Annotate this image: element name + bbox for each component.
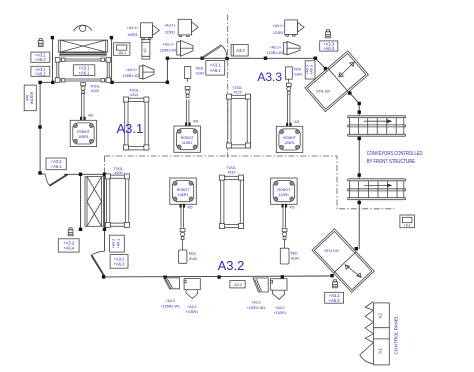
svg-text:-A3.2: -A3.2	[233, 283, 242, 287]
rotated label box +A3.2+A6.1b	[110, 235, 125, 252]
svg-text:PED: PED	[291, 251, 299, 255]
svg-text:#100: #100	[115, 171, 123, 175]
svg-text:+A3.1+: +A3.1+	[164, 24, 176, 28]
svg-text:105R1: 105R1	[127, 33, 138, 37]
node K	[324, 67, 327, 70]
wire diamond1 to conveyor1	[350, 93, 360, 116]
svg-text:4/5: 4/5	[88, 114, 93, 118]
svg-text:123R1: 123R1	[273, 31, 284, 35]
fixture frame TOOL #100	[105, 174, 129, 228]
svg-text:105R1: 105R1	[78, 135, 89, 139]
node A	[51, 36, 54, 39]
ped gun of 115R1	[184, 67, 190, 98]
tip dress cassette	[142, 40, 150, 59]
svg-text:ROBOT: ROBOT	[283, 136, 297, 140]
svg-text:GUN: GUN	[189, 257, 197, 261]
label box +A3.2+A6.4	[58, 239, 79, 252]
weld gun station 123R1	[285, 20, 305, 36]
svg-text:+A3.2: +A3.2	[166, 299, 176, 303]
bottom station gun 110R1	[271, 279, 287, 300]
gun label 105R1-W1	[123, 68, 140, 78]
robot 105R1	[70, 83, 97, 147]
node J	[314, 57, 317, 60]
wire conveyor1 to conveyor2	[358, 136, 360, 179]
ped gun of 125R1	[285, 67, 292, 94]
svg-text:4/5: 4/5	[290, 206, 295, 210]
svg-text:+110R1-W1: +110R1-W1	[246, 306, 265, 310]
svg-text:+A6.4: +A6.4	[63, 246, 75, 251]
svg-text:-A6.1: -A6.1	[118, 51, 127, 55]
svg-text:+A6.1: +A6.1	[79, 70, 91, 75]
svg-text:ROBOT: ROBOT	[177, 188, 191, 192]
node V	[103, 173, 106, 176]
svg-text:#113: #113	[130, 93, 138, 97]
robot 125R1	[276, 95, 303, 153]
eye sensor symbol	[74, 25, 92, 31]
fixture table F1 under M1	[55, 58, 110, 83]
wire left post of lift table	[52, 38, 54, 83]
wire door2 arc	[91, 251, 104, 255]
svg-text:#110: #110	[228, 170, 236, 174]
node Y	[103, 228, 106, 231]
wire right post of lift table	[111, 38, 113, 83]
node F	[166, 57, 169, 60]
wire door1 arc	[46, 175, 50, 187]
svg-text:STN 100: STN 100	[324, 249, 338, 253]
tool label #110	[227, 166, 237, 174]
svg-text:+A6.4: +A6.4	[35, 57, 47, 62]
node Z2	[38, 171, 41, 174]
dashed region boundary	[105, 156, 395, 209]
dashed boundary left stub	[104, 156, 106, 174]
svg-text:+A6.1: +A6.1	[210, 68, 222, 73]
node S	[217, 275, 220, 278]
node N	[358, 137, 361, 140]
svg-text:AIR: AIR	[25, 95, 29, 101]
rotated label box +A3.3	[305, 61, 315, 79]
svg-text:+A3.1+: +A3.1+	[270, 46, 282, 50]
gun label 115R1-W1	[160, 43, 177, 53]
node B	[110, 36, 113, 39]
label box A3.3 small	[231, 45, 248, 56]
svg-text:+A3.1+: +A3.1+	[273, 24, 285, 28]
wire conveyor2 to diamond2	[358, 200, 360, 249]
ladder conveyor upper	[348, 116, 406, 136]
svg-text:105R1-W1: 105R1-W1	[123, 74, 140, 78]
ladder conveyor lower	[348, 179, 406, 200]
node Z	[38, 125, 41, 128]
weld gun station 115R1	[178, 19, 198, 36]
svg-text:4/5: 4/5	[193, 120, 198, 124]
ped gun label top2	[294, 68, 302, 77]
ped gun of 100R1	[178, 240, 187, 263]
gun label 123R1-W1	[267, 46, 284, 56]
monitor box +6.1 right	[400, 215, 415, 228]
conveyors note text	[367, 151, 423, 165]
bottom station horn 110R1-W1	[253, 278, 268, 292]
svg-text:CONTROL PANEL: CONTROL PANEL	[394, 315, 399, 354]
label box +A3.2+A6.3	[325, 292, 344, 303]
SECTION: machines	[55, 19, 414, 365]
svg-text:100R1: 100R1	[178, 193, 189, 197]
svg-text:A3.1: A3.1	[117, 121, 144, 136]
node U	[102, 275, 105, 278]
svg-text:+110R1: +110R1	[274, 311, 286, 315]
svg-text:4/5: 4/5	[188, 206, 193, 210]
node L	[348, 91, 351, 94]
svg-text:A3.3: A3.3	[257, 70, 282, 84]
svg-text:+A3.1+: +A3.1+	[126, 68, 138, 72]
tool label #100	[114, 167, 124, 175]
station label 110R1 bottom	[274, 306, 286, 315]
node Q	[330, 274, 333, 277]
diamond conveyor STN100 lower	[312, 229, 374, 292]
gun label 115R1	[164, 24, 176, 35]
ped gun label bottom2	[291, 251, 299, 260]
wire horizontal y80	[112, 58, 168, 82]
label box +A3.2+A6.1	[46, 158, 66, 170]
air water box	[24, 85, 36, 111]
tool label #103	[90, 85, 100, 93]
clamp of 100R1	[180, 229, 185, 240]
svg-text:115R1-W1: 115R1-W1	[160, 49, 177, 53]
stack icon mid-left	[68, 228, 73, 236]
svg-text:A3.3: A3.3	[236, 48, 245, 53]
node O	[358, 201, 361, 204]
svg-text:PED: PED	[196, 67, 204, 71]
svg-text:4/5: 4/5	[294, 120, 299, 124]
bottom station gun 105R1	[184, 279, 200, 299]
wire door2 leaf	[91, 255, 105, 276]
centerline dash-dot	[227, 15, 229, 158]
svg-text:+A6.2: +A6.2	[114, 262, 126, 267]
weld gun station 105R1	[141, 23, 160, 39]
stack icon left	[38, 39, 43, 47]
svg-text:A3.2: A3.2	[218, 258, 245, 273]
svg-text:#2: #2	[143, 49, 147, 53]
station label 105R1 bottom	[185, 305, 198, 314]
node T	[163, 276, 166, 279]
svg-text:+A3.1+: +A3.1+	[163, 43, 175, 47]
svg-text:+A3.2: +A3.2	[275, 306, 285, 310]
node P	[355, 247, 358, 250]
label box +A3.1+A6.4	[31, 52, 50, 62]
svg-text:115R1: 115R1	[165, 31, 175, 35]
SECTION: right-conveyors	[348, 116, 423, 200]
svg-text:#123: #123	[234, 90, 242, 94]
robot 115R1	[174, 99, 201, 152]
svg-text:PED: PED	[189, 252, 197, 256]
node X	[79, 228, 82, 231]
node W	[79, 173, 82, 176]
diamond conveyor STN100 upper	[305, 51, 369, 112]
tool label #113	[129, 89, 139, 97]
wire right post machine2	[104, 174, 106, 251]
node E	[166, 81, 169, 84]
node C2	[38, 81, 41, 84]
svg-text:+A6.3: +A6.3	[310, 65, 314, 75]
svg-text:+A6.3: +A6.3	[323, 46, 335, 51]
station label 110R1-W1 bottom	[246, 301, 265, 310]
wire door1 leaf	[49, 174, 68, 186]
node R	[281, 275, 284, 278]
node G	[201, 57, 204, 60]
svg-text:A1: A1	[378, 348, 383, 354]
ped gun label top1	[196, 67, 204, 76]
SECTION: wires	[38, 15, 394, 279]
svg-text:GUN: GUN	[196, 72, 204, 76]
ped gun label bottom1	[189, 252, 197, 261]
svg-text:WATER: WATER	[30, 91, 34, 104]
fixture frame TOOL #123	[227, 94, 251, 148]
station label 105R1-W1 bottom	[161, 299, 180, 308]
node M0	[358, 102, 361, 105]
gun label 105R1	[127, 26, 139, 37]
svg-text:115R1: 115R1	[182, 141, 192, 145]
svg-text:+6.1: +6.1	[404, 223, 411, 227]
svg-text:CONVEYORS CONTROLLED: CONVEYORS CONTROLLED	[367, 151, 423, 157]
svg-text:123R1-W1: 123R1-W1	[267, 51, 284, 55]
door ramp near node G	[202, 45, 227, 59]
svg-text:+A3.1+: +A3.1+	[127, 26, 139, 30]
gun dress horn 123R1-W1	[283, 41, 300, 55]
control panel cabinet	[360, 302, 390, 365]
svg-text:ROBOT: ROBOT	[181, 136, 195, 140]
wire bottom horizontal	[104, 275, 330, 278]
machine M2 vertical X table	[85, 177, 104, 227]
wire top horizontal y58	[167, 58, 325, 68]
svg-text:ROBOT: ROBOT	[77, 130, 91, 134]
svg-text:+105R1: +105R1	[185, 310, 198, 314]
node C	[51, 81, 54, 84]
svg-text:#103: #103	[91, 89, 99, 93]
svg-text:+A6.3: +A6.3	[329, 298, 341, 303]
svg-text:+A6.2: +A6.2	[35, 71, 47, 76]
SECTION: labels	[24, 24, 398, 355]
tool label #123	[233, 86, 243, 94]
svg-text:ROBOT: ROBOT	[278, 188, 292, 192]
fixture frame TOOL #110	[220, 175, 244, 229]
label box +A3.1+A6.2	[31, 66, 50, 76]
wire left slant boundary	[40, 82, 52, 173]
svg-text:125R1: 125R1	[284, 141, 295, 145]
node D	[110, 81, 113, 84]
svg-text:GUN: GUN	[294, 73, 302, 77]
fixture frame TOOL #113	[123, 97, 148, 150]
node I	[264, 57, 267, 60]
svg-text:A2: A2	[378, 312, 383, 318]
svg-text:+A3.2: +A3.2	[251, 301, 261, 305]
robot 110R1	[271, 178, 298, 228]
bottom station horn 105R1-W1	[164, 278, 180, 289]
gun label 123R1	[273, 24, 285, 35]
svg-text:+A3.3: +A3.3	[305, 65, 309, 75]
label box +A3.2+A6.2	[110, 255, 128, 269]
label box +A3.3+A6.3	[320, 41, 338, 51]
stack icon A3.3	[326, 30, 331, 38]
svg-text:+A6.1: +A6.1	[51, 164, 63, 169]
stack icon bottom right	[333, 280, 338, 288]
svg-text:110R1: 110R1	[279, 193, 289, 197]
monitor box -A6.1	[114, 43, 130, 56]
node H	[225, 57, 228, 60]
node M	[358, 110, 361, 113]
clamp of 110R1	[282, 229, 287, 240]
robot 100R1	[170, 178, 197, 228]
svg-text:+A3.2: +A3.2	[112, 239, 116, 249]
ped gun of 110R1	[280, 240, 289, 264]
gun dress horn 105R1-W1	[139, 65, 154, 79]
gun dress horn 115R1-W1	[177, 40, 193, 56]
svg-text:STN 100: STN 100	[316, 90, 330, 94]
svg-text:+A6.1: +A6.1	[117, 239, 121, 249]
label box +A3.1+A6.1 top	[206, 60, 225, 75]
svg-text:+A3.2: +A3.2	[187, 305, 197, 309]
wire middle horizontal y174	[40, 173, 105, 175]
svg-text:GUN: GUN	[291, 256, 299, 260]
svg-text:PED: PED	[294, 68, 302, 72]
svg-text:+105R1-W1: +105R1-W1	[161, 304, 180, 308]
node O2	[358, 173, 361, 176]
lift table machine M1	[58, 40, 107, 56]
bottom small box A3.2	[230, 281, 245, 288]
svg-text:BY FRONT STRUCTURE: BY FRONT STRUCTURE	[367, 159, 416, 165]
wire left post machine2	[80, 174, 82, 229]
